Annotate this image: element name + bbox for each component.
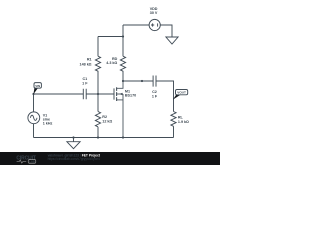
- label VDD value: [150, 7, 158, 15]
- label M1 value: [125, 90, 136, 98]
- footer bar: [0, 152, 220, 165]
- label RL value: [178, 116, 189, 125]
- svg-text:1 kHz: 1 kHz: [43, 122, 53, 126]
- wire RD bottom lead to drain node: [122, 71, 124, 81]
- svg-text:R2: R2: [102, 115, 107, 119]
- node ground rail junction at M1 source: [122, 136, 124, 138]
- wire R2 bottom lead: [97, 127, 99, 138]
- wire VDD right to ground: [160, 25, 172, 37]
- capacitor C2: [153, 76, 156, 87]
- wire RL bottom lead: [173, 126, 175, 137]
- resistor R1: [95, 56, 100, 71]
- wire top rail VDD to corner: [123, 24, 149, 26]
- label C2 value: [152, 90, 158, 98]
- wire C1 to gate: [86, 93, 114, 95]
- svg-text:148 kΩ: 148 kΩ: [80, 62, 92, 66]
- node drain (RD/M1/C2) junction: [122, 80, 124, 82]
- resistor R2: [95, 112, 100, 127]
- svg-text:30 V: 30 V: [150, 11, 158, 15]
- wire R1 top lead: [97, 37, 99, 57]
- svg-text:4.3 kΩ: 4.3 kΩ: [106, 61, 117, 65]
- capacitor C1: [83, 89, 86, 100]
- transistor M1 body arrow: [119, 93, 122, 95]
- node gate (C1/R1/R2/M1) junction: [97, 93, 99, 95]
- svg-text:LAB: LAB: [29, 160, 35, 164]
- svg-text:BS170: BS170: [125, 94, 136, 98]
- resistor RD: [120, 56, 125, 71]
- svg-text:VOUT: VOUT: [177, 91, 186, 95]
- wire V1 bottom lead: [33, 124, 35, 138]
- wire V1 top lead: [33, 94, 35, 112]
- wire R1 bottom lead to gate node: [97, 71, 99, 94]
- svg-text:VIN: VIN: [35, 84, 40, 88]
- transistor M1 (NMOS BS170): [114, 81, 123, 138]
- svg-text:R1: R1: [87, 58, 92, 62]
- resistor RL: [171, 112, 176, 127]
- wire drain node to C2: [123, 80, 153, 82]
- svg-text:RL: RL: [178, 116, 184, 120]
- svg-text:C1: C1: [82, 77, 87, 81]
- label RD value: [106, 57, 117, 65]
- node ground rail junction at ground stub: [72, 136, 74, 138]
- label R1 value: [80, 58, 92, 67]
- wire C2 to VOUT corner: [156, 81, 174, 112]
- voltage source V1: [28, 112, 40, 124]
- svg-text:1 F: 1 F: [152, 94, 158, 98]
- node VIN junction: [32, 93, 34, 95]
- wire mid rail: [98, 36, 123, 38]
- node VDD rail junction: [122, 35, 124, 37]
- node drain wire mid junction: [141, 80, 143, 82]
- wire R2 top lead: [97, 94, 99, 112]
- svg-text:1 F: 1 F: [82, 82, 88, 86]
- node ground rail junction at R2: [97, 136, 99, 138]
- wire RD top lead: [122, 37, 124, 57]
- wire VIN node to C1: [34, 93, 84, 95]
- footer CircuitLab logo: [16, 155, 36, 163]
- voltage source VDD: [149, 19, 160, 30]
- flag VOUT: [173, 90, 188, 100]
- svg-text:https://circuitlab.com/c7gryyr: https://circuitlab.com/c7gryyrck5pwr4: [48, 157, 100, 161]
- flag VIN: [33, 83, 41, 95]
- wire corner down to mid rail: [122, 25, 124, 37]
- label C1 value: [82, 77, 88, 86]
- ground (top right): [166, 37, 178, 44]
- svg-text:12 kΩ: 12 kΩ: [102, 119, 112, 123]
- svg-text:1.9 kΩ: 1.9 kΩ: [178, 120, 189, 124]
- ground (bottom): [67, 142, 80, 149]
- label R2 value: [102, 115, 112, 123]
- wire bottom rail: [34, 137, 174, 139]
- label V1 value: [43, 113, 53, 125]
- wire ground stub: [73, 138, 75, 142]
